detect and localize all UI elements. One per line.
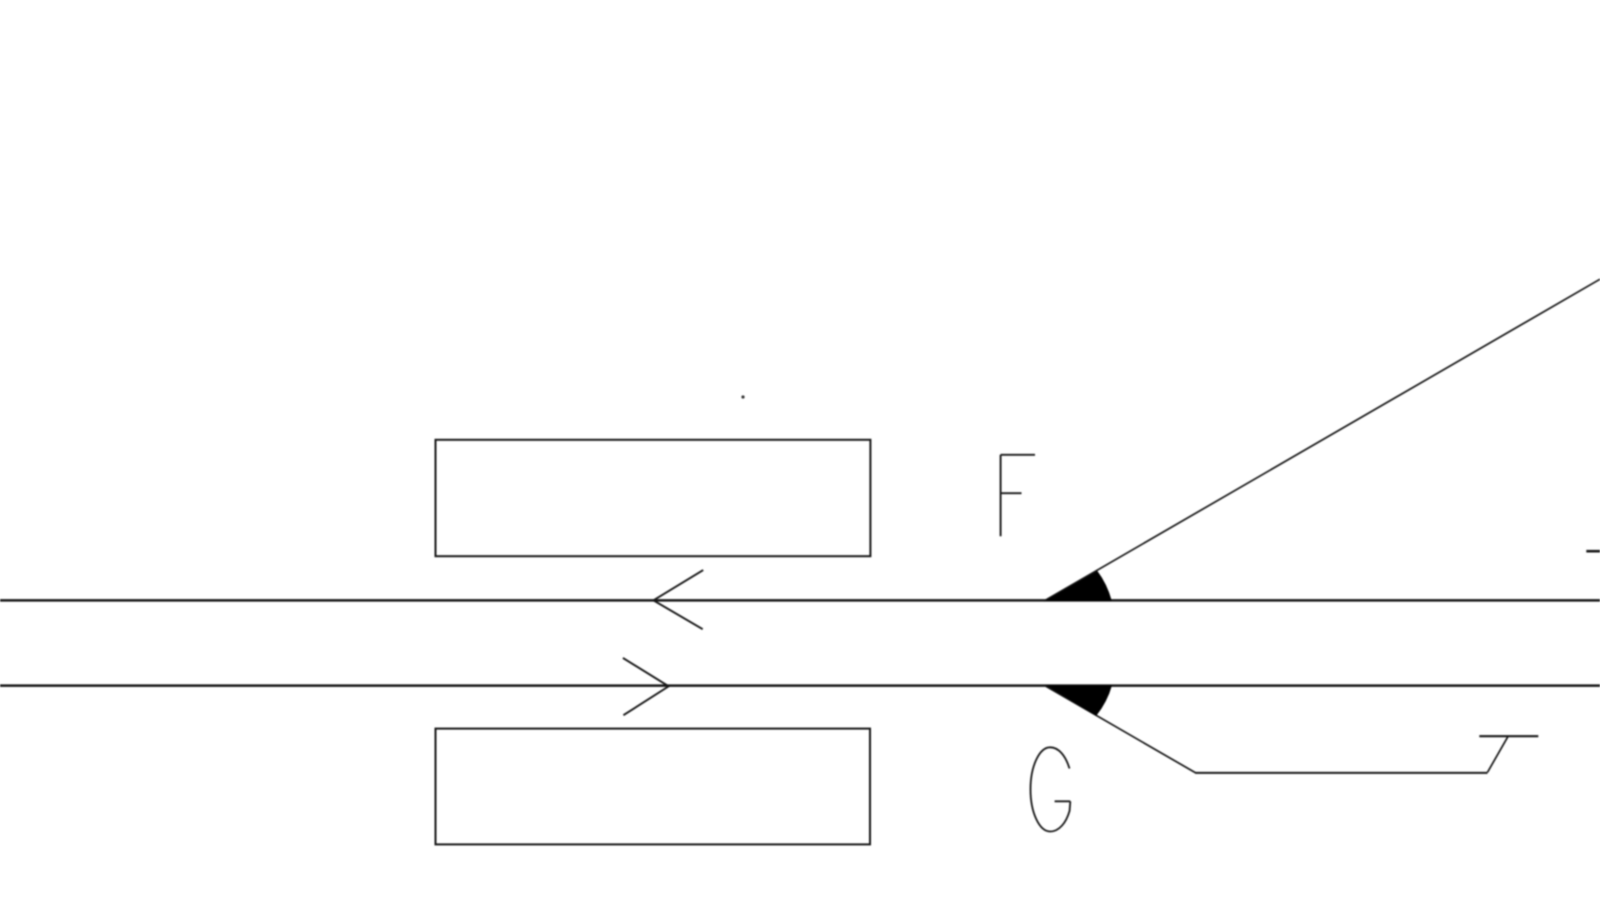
point marker dot <box>741 395 744 398</box>
lower platform rectangle <box>436 729 871 845</box>
right edge dash <box>1586 550 1600 553</box>
label G <box>1031 747 1071 831</box>
left direction arrow on upper track <box>653 570 703 629</box>
upper main track <box>0 599 1600 602</box>
upper turnout wedge <box>1045 571 1112 601</box>
buffer stop diagonal <box>1488 737 1508 773</box>
lower turnout wedge <box>1046 685 1112 716</box>
right direction arrow on lower track <box>623 658 669 715</box>
buffer stop bar <box>1479 735 1538 737</box>
siding track <box>1195 772 1487 774</box>
lower main track <box>0 684 1600 687</box>
diverging track (upper turnout branch) <box>1044 279 1600 601</box>
label F <box>1001 455 1035 537</box>
upper platform rectangle <box>436 440 871 556</box>
lower turnout branch <box>1046 686 1196 773</box>
